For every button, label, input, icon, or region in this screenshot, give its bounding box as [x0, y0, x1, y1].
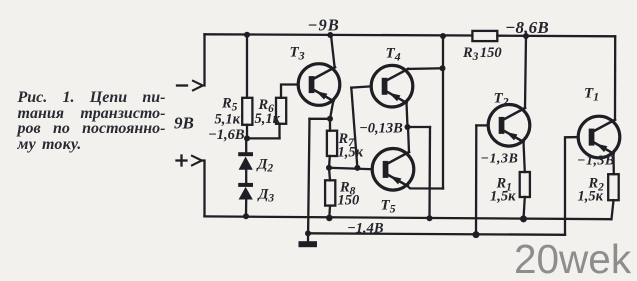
svg-text:R3150: R3150 — [462, 45, 502, 63]
resistor R7 — [327, 131, 337, 156]
wire R6 top to T3 base — [281, 85, 298, 98]
node dot rail T3 collector — [327, 32, 333, 38]
figure caption — [18, 90, 166, 153]
svg-text:Д3: Д3 — [257, 187, 275, 205]
svg-text:Т1: Т1 — [584, 86, 599, 104]
svg-text:150: 150 — [338, 192, 360, 208]
node dot bottom rail R1 — [520, 215, 527, 222]
node dot R7 R8 junction — [326, 165, 332, 171]
transistor T5 — [372, 149, 414, 191]
wire R6 bottom riser — [278, 124, 280, 139]
wire T3 emitter node horizontal — [310, 118, 331, 120]
wire T5 base line — [329, 168, 372, 169]
node dot rail R5 — [244, 32, 250, 38]
svg-text:1,5к: 1,5к — [338, 145, 364, 161]
ground — [299, 241, 318, 247]
wire R8 bottom — [328, 206, 331, 218]
svg-text:Т4: Т4 — [386, 46, 401, 64]
resistor R6 — [276, 98, 286, 124]
node minus input arrow — [177, 81, 203, 91]
wire T5 emitter to right vertical — [408, 186, 444, 189]
wire -1.6V node horizontal — [247, 137, 280, 139]
wire T2 base drop to -1.4V rail — [475, 126, 478, 235]
node dot T3 emitter R7 — [327, 116, 333, 122]
node dot rail right vertical — [440, 33, 446, 39]
svg-text:Т3: Т3 — [290, 45, 305, 63]
svg-text:Т5: Т5 — [381, 198, 396, 216]
svg-text:1,5к: 1,5к — [490, 189, 516, 205]
node dot -1.4V rail start — [305, 230, 311, 236]
node dot -0.13V — [405, 124, 411, 130]
node dot bottom rail R8 — [326, 215, 333, 222]
watermark — [514, 236, 631, 281]
node dot bottom rail line A — [427, 215, 433, 221]
svg-text:9В: 9В — [174, 114, 194, 133]
wire T3 collector — [331, 35, 335, 67]
resistor R3 — [472, 31, 497, 41]
transistor T2 — [488, 105, 530, 147]
svg-text:5,1к: 5,1к — [215, 112, 241, 128]
node dot bottom rail diodes — [243, 213, 249, 219]
wire plus input to bottom rail — [202, 161, 205, 217]
wire T2 collector — [525, 36, 526, 108]
resistor R2 — [608, 174, 619, 200]
wire T1 base — [565, 137, 578, 235]
wire left input drop (minus input to top rail) — [203, 34, 205, 85]
wire T2 base — [476, 124, 488, 126]
node dot T4 base drop — [354, 165, 360, 171]
wire T1 emitter to R2 — [612, 154, 615, 175]
wire ground stub — [308, 119, 310, 242]
svg-text:−0,13В: −0,13В — [359, 120, 403, 136]
wire between diodes — [245, 170, 247, 183]
wire -1.4V rail — [308, 233, 565, 235]
wire T5 collector up — [408, 127, 409, 152]
diode D2 — [238, 152, 253, 170]
svg-text:−1,3В: −1,3В — [481, 152, 519, 167]
node dot -1.6V — [244, 135, 250, 141]
node dot rail T2 collector — [523, 33, 529, 39]
wire T4 collector to right vertical — [408, 67, 443, 70]
transistor T4 — [371, 65, 413, 107]
resistor R8 — [325, 180, 335, 205]
wire R7 bottom — [328, 156, 331, 168]
node dot -1.4V rail T2 base — [473, 231, 480, 238]
wire R7 top — [329, 119, 331, 131]
wire -0.13V node to line A — [408, 126, 431, 128]
svg-text:−1,3В: −1,3В — [577, 154, 615, 169]
transistor T1 — [578, 116, 620, 158]
svg-text:5,1к: 5,1к — [255, 111, 281, 127]
node dot T4 collector joint — [440, 65, 446, 71]
wire R5 bottom to -1.6V node — [246, 125, 248, 139]
svg-text:−1,4В: −1,4В — [347, 221, 384, 237]
svg-text:Т2: Т2 — [494, 91, 509, 109]
wire R1 bottom — [524, 197, 525, 219]
wire right vertical (rail to T5 emitter) — [442, 36, 444, 189]
wire T4 emitter down — [407, 103, 408, 127]
transistor T3 — [298, 64, 340, 106]
resistor R1 — [520, 172, 530, 197]
wire diode chain bottom — [245, 200, 247, 217]
wire R8 top — [329, 168, 330, 181]
svg-text:1,5к: 1,5к — [578, 189, 604, 205]
svg-text:−1,6В: −1,6В — [208, 127, 245, 143]
wire top rail left (-9V rail) — [205, 34, 473, 35]
wire line A down to bottom rail — [428, 127, 431, 218]
diode D3 — [238, 183, 253, 200]
svg-text:Д2: Д2 — [256, 157, 274, 175]
wire bottom rail (0V) — [205, 216, 612, 219]
resistor R5 — [242, 98, 252, 125]
wire diode chain top — [245, 138, 247, 152]
wire top rail right — [497, 35, 615, 38]
wire T1 collector from rail corner — [614, 36, 617, 119]
wire T4 base drop — [351, 88, 357, 168]
wire T3 emitter down — [330, 101, 333, 119]
wire T2 emitter to R1 — [524, 142, 525, 172]
node plus input arrow — [177, 156, 202, 166]
wire R5 top branch — [246, 35, 248, 98]
svg-text:−9В: −9В — [308, 16, 340, 35]
wire R2 bottom — [612, 200, 614, 219]
wire T4 base horizontal — [351, 86, 371, 87]
